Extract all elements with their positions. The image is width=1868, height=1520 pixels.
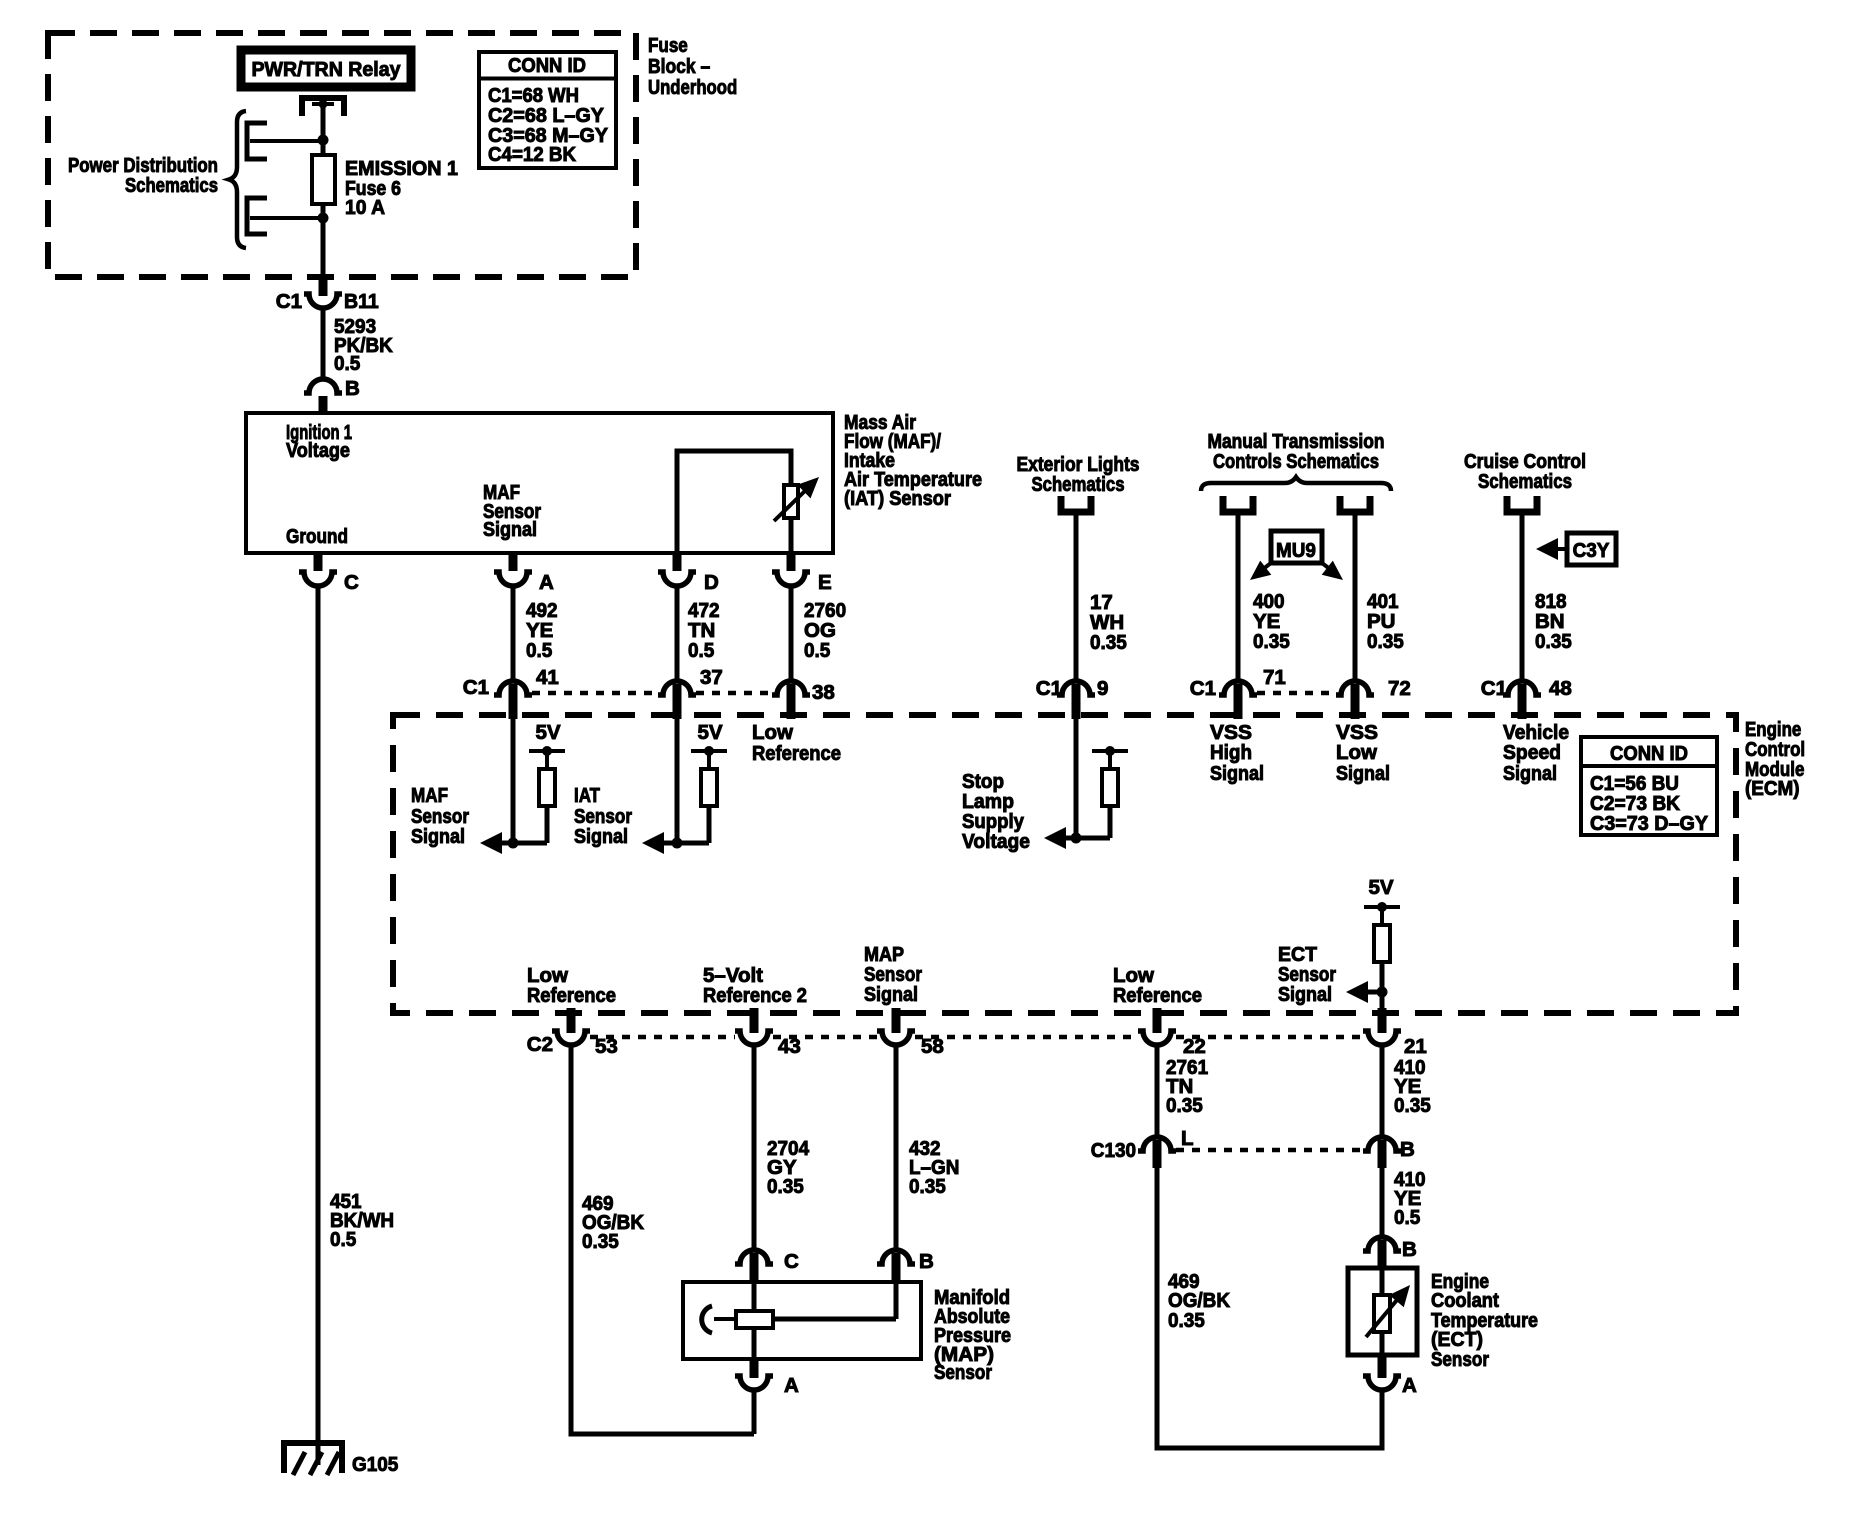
svg-text:5V: 5V (1368, 876, 1393, 899)
pin stub B (C130) (1378, 1140, 1387, 1168)
svg-text:0.5: 0.5 (526, 639, 552, 662)
svg-text:9: 9 (1097, 677, 1108, 700)
svg-text:71: 71 (1263, 666, 1286, 689)
label Manual Transmission Controls Schematics (1208, 430, 1385, 473)
pin stub A (ECT) (1378, 1355, 1387, 1378)
wire 469 OG/BK (low ref loop) (571, 1045, 754, 1434)
pin stub 37 (673, 684, 682, 719)
svg-text:0.35: 0.35 (582, 1230, 619, 1253)
wire 818 BN (1520, 512, 1525, 681)
svg-text:MAF: MAF (411, 784, 448, 807)
wire 2704 GY (752, 1045, 757, 1250)
svg-text:Signal: Signal (1503, 762, 1557, 785)
svg-text:C3Y: C3Y (1573, 539, 1610, 562)
svg-text:A: A (1402, 1374, 1417, 1397)
label Exterior Lights Schematics (1017, 453, 1140, 496)
svg-text:B: B (345, 377, 360, 400)
label Engine Coolant Temperature (ECT) Sensor (1431, 1270, 1538, 1371)
pin stub C1 B11 (319, 277, 328, 296)
pin stub B (MAP) (892, 1253, 901, 1284)
wire pin9 internal (1074, 719, 1079, 838)
label IAT Sensor Signal (ECM) (574, 784, 632, 848)
label Mass Air Flow (MAF)/ Intake Air Temperature (IAT) Sensor (844, 411, 982, 510)
lower branch bracket to power distribution (247, 198, 323, 234)
connector dashed link 22-21 (1176, 1035, 1363, 1040)
svg-text:MU9: MU9 (1276, 539, 1316, 562)
svg-text:C1: C1 (1036, 677, 1062, 700)
svg-text:0.5: 0.5 (334, 352, 360, 375)
label 2761 TN 0.35 (1166, 1056, 1208, 1117)
svg-text:38: 38 (812, 681, 835, 704)
label 818 BN 0.35 (1535, 590, 1572, 653)
label VSS Low Signal (1336, 721, 1390, 785)
pin stub A (MAP) (750, 1359, 759, 1378)
connector C1 pin 71 (1219, 681, 1257, 695)
label 410 YE 0.35 (upper) (1394, 1056, 1431, 1117)
svg-text:0.5: 0.5 (330, 1228, 356, 1251)
wire 2760 OG (789, 586, 794, 681)
connector C2 pin 53 (552, 1031, 590, 1045)
pin stub 9 (1072, 684, 1081, 719)
pin stub 22 (1153, 1008, 1162, 1033)
connector C130 pin B (1363, 1137, 1401, 1151)
connector pin D (658, 572, 696, 586)
pin stub B (319, 396, 328, 413)
connector ECT pin A (1363, 1376, 1401, 1390)
pin stub 21 (1378, 1008, 1387, 1033)
svg-text:(IAT) Sensor: (IAT) Sensor (844, 487, 951, 510)
label 492 YE 0.5 (526, 599, 558, 662)
label MAP Sensor Signal (ECM) (864, 943, 922, 1006)
svg-text:Reference: Reference (527, 984, 616, 1007)
fuse block - underhood dashed border (48, 33, 636, 277)
svg-text:IAT: IAT (574, 784, 600, 807)
connector dashed link 58-22 (915, 1035, 1138, 1040)
label 400 YE 0.35 (1253, 590, 1290, 653)
connector C1 pin B11 (304, 294, 342, 308)
connector C130 pin L (1138, 1137, 1176, 1151)
connector C2 pin 58 (877, 1031, 915, 1045)
svg-text:72: 72 (1388, 677, 1411, 700)
svg-text:Signal: Signal (1336, 762, 1390, 785)
wire 5293 PK/BK (321, 308, 326, 380)
CONN ID table (ECM) (1581, 737, 1717, 835)
svg-text:(ECM): (ECM) (1745, 777, 1800, 800)
connector C1 pin 72 (1336, 681, 1374, 695)
relay terminal T-bar with junction dot (312, 100, 334, 109)
svg-text:0.35: 0.35 (1090, 631, 1127, 654)
label 5293 PK/BK 0.5 (334, 315, 393, 375)
off-page symbol VSS low (1340, 496, 1370, 512)
connector C1 pin 48 (1503, 681, 1541, 695)
wire 469 OG/BK (ECT low ref loop) (1157, 1168, 1382, 1448)
connector MAP pin A (735, 1376, 773, 1390)
svg-text:G105: G105 (352, 1453, 398, 1476)
MAP internal vertical wire (752, 1282, 757, 1359)
svg-text:0.5: 0.5 (804, 639, 830, 662)
label Low Reference (pin 22) (1113, 964, 1202, 1007)
connector C1 pin 41 (494, 681, 532, 695)
5V supply T-bar (ECT) (1364, 905, 1400, 909)
connector C1 pin 37 (658, 681, 696, 695)
engine control module dashed border (393, 715, 1736, 1013)
node junction ECT signal (1377, 987, 1388, 998)
curly brace power distribution (229, 111, 246, 248)
label 2760 OG 0.5 (804, 599, 846, 662)
label MAF Sensor Signal (component) (483, 481, 541, 541)
svg-text:0.5: 0.5 (688, 639, 714, 662)
connector C2 pin 22 (1138, 1031, 1176, 1045)
svg-text:5V: 5V (535, 721, 560, 744)
svg-text:Voltage: Voltage (962, 830, 1030, 853)
svg-text:Speed: Speed (1503, 741, 1561, 764)
ground wire 451 BK/WH (316, 586, 321, 1465)
label 17 WH 0.35 (1090, 591, 1127, 654)
upper branch bracket to power distribution (247, 123, 323, 159)
label Power Distribution Schematics (68, 154, 218, 197)
wire 2761 TN (1155, 1045, 1160, 1137)
svg-text:0.35: 0.35 (1166, 1094, 1203, 1117)
5V supply T-bar (IAT) (691, 749, 727, 753)
label Manifold Absolute Pressure (MAP) Sensor (934, 1286, 1011, 1384)
label 472 TN 0.5 (688, 599, 720, 662)
label 2704 GY 0.35 (767, 1137, 810, 1198)
svg-text:0.35: 0.35 (1253, 630, 1290, 653)
ECT sensor signal arrow (1346, 981, 1382, 1003)
pin stub E (787, 553, 796, 571)
off-page symbol cruise control (1507, 496, 1537, 512)
svg-text:B: B (1400, 1138, 1415, 1161)
pin stub 72 (1351, 684, 1360, 719)
label PWR/TRN Relay box (241, 50, 411, 87)
svg-text:Signal: Signal (574, 825, 628, 848)
label 401 PU 0.35 (1367, 590, 1404, 653)
svg-text:C: C (344, 571, 359, 594)
MAF sensor signal arrow (480, 832, 547, 854)
node junction lower branch (318, 213, 329, 224)
connector C1 pin 9 (1057, 681, 1095, 695)
svg-text:A: A (539, 571, 554, 594)
splice MU9 flag box (1271, 531, 1322, 563)
pin stub 38 (787, 684, 796, 719)
svg-text:Schematics: Schematics (125, 174, 218, 197)
connector dashed link 37-38 (696, 691, 772, 696)
ECT thermistor (variable resistor) (1366, 1279, 1417, 1337)
svg-text:C1: C1 (1481, 677, 1507, 700)
pull-up resistor (stop lamp) (1102, 751, 1118, 838)
IAT internal wire loop (677, 451, 791, 553)
pin stub 58 (892, 1008, 901, 1033)
off-page symbol VSS high (1223, 496, 1253, 512)
label VSS High Signal (1210, 721, 1264, 785)
svg-text:C4=12 BK: C4=12 BK (488, 143, 576, 166)
svg-text:0.35: 0.35 (909, 1175, 946, 1198)
pin stub B (ECT) (1378, 1240, 1387, 1270)
svg-text:5V: 5V (697, 721, 722, 744)
wire 492 YE (511, 586, 516, 681)
pull-up resistor (MAF) (539, 751, 555, 843)
node junction MAF signal (508, 838, 519, 849)
label Low Reference (pin 38) (752, 721, 841, 765)
wire 410 YE 0.35 (1380, 1045, 1385, 1137)
relay terminal bracket (302, 98, 344, 116)
label Ignition 1 Voltage (286, 421, 352, 462)
svg-text:Schematics: Schematics (1032, 473, 1125, 496)
pin stub D (673, 553, 682, 571)
svg-text:Voltage: Voltage (286, 439, 350, 462)
svg-text:0.35: 0.35 (767, 1175, 804, 1198)
wire 432 L-GN (894, 1045, 899, 1250)
svg-text:Signal: Signal (411, 825, 465, 848)
svg-text:Block –: Block – (648, 55, 710, 78)
svg-text:Signal: Signal (483, 518, 537, 541)
svg-text:10 A: 10 A (345, 196, 385, 219)
MAF/IAT sensor box (246, 413, 833, 553)
svg-text:Schematics: Schematics (1478, 470, 1572, 493)
connector dashed link 53-43 (590, 1035, 735, 1040)
svg-text:A: A (784, 1374, 799, 1397)
svg-text:Sensor: Sensor (934, 1361, 992, 1384)
connector MAP pin B (877, 1250, 915, 1264)
svg-text:Signal: Signal (864, 983, 918, 1006)
label MAF Sensor Signal (ECM) (411, 784, 469, 848)
svg-text:Signal: Signal (1278, 983, 1332, 1006)
label Engine Control Module (ECM) (1745, 718, 1805, 800)
MAP internal signal wire (773, 1282, 896, 1319)
svg-text:Low: Low (1336, 741, 1377, 764)
svg-text:High: High (1210, 741, 1252, 764)
svg-text:L: L (1181, 1127, 1194, 1150)
pin stub 53 (567, 1008, 576, 1033)
svg-text:Reference 2: Reference 2 (703, 984, 807, 1007)
svg-text:0.5: 0.5 (1394, 1206, 1420, 1229)
stop lamp supply arrow (1044, 827, 1110, 849)
connector C2 pin 43 (735, 1031, 773, 1045)
wire 401 PU (1353, 512, 1358, 681)
svg-text:Reference: Reference (752, 742, 841, 765)
svg-text:48: 48 (1549, 677, 1572, 700)
connector flag C3Y (1536, 533, 1616, 565)
ECT internal wire (1380, 1268, 1385, 1355)
connector C2 pin 21 (1363, 1031, 1401, 1045)
connector dashed link 43-58 (773, 1035, 877, 1040)
svg-text:B11: B11 (344, 290, 379, 313)
svg-text:Sensor: Sensor (1431, 1348, 1489, 1371)
pin stub 71 (1234, 684, 1243, 719)
pin stub 48 (1518, 684, 1527, 719)
label 451 BK/WH 0.5 (330, 1190, 394, 1251)
IAT thermistor (variable resistor) (774, 470, 826, 521)
ECT sensor box (1348, 1268, 1417, 1355)
svg-text:B: B (1402, 1238, 1417, 1261)
wire MAP pin A to low reference (752, 1390, 757, 1434)
MU9 arrow right (1322, 561, 1349, 587)
IAT sensor signal arrow (642, 832, 709, 854)
svg-text:21: 21 (1404, 1035, 1427, 1058)
svg-text:E: E (818, 571, 832, 594)
connector pin B at ignition module (304, 379, 342, 393)
pin stub A (509, 553, 518, 571)
wire 410 YE 0.5 (1380, 1168, 1385, 1237)
node junction upper branch (318, 135, 329, 146)
svg-text:0.35: 0.35 (1535, 630, 1572, 653)
MAP sense element (736, 1311, 773, 1328)
label Vehicle Speed Signal (1503, 721, 1569, 785)
svg-text:Controls Schematics: Controls Schematics (1213, 450, 1379, 473)
svg-text:0.35: 0.35 (1168, 1309, 1205, 1332)
svg-text:B: B (919, 1250, 934, 1273)
label ECT Sensor Signal (ECM) (1278, 943, 1336, 1006)
svg-text:Underhood: Underhood (648, 76, 737, 99)
svg-text:C1: C1 (1190, 677, 1216, 700)
svg-text:C2: C2 (527, 1033, 553, 1056)
svg-text:C1: C1 (276, 290, 302, 313)
wire 472 TN (675, 586, 680, 681)
connector pin E (772, 572, 810, 586)
MAP sensor box (683, 1282, 921, 1359)
pull-up resistor (ECT) (1374, 907, 1390, 1013)
label 5-Volt Reference 2 (703, 964, 807, 1007)
svg-text:C130: C130 (1091, 1139, 1136, 1162)
svg-text:Ground: Ground (286, 525, 348, 548)
MAP pressure port symbol (702, 1306, 736, 1333)
node junction IAT signal (672, 838, 683, 849)
5V supply T-bar (stop lamp) (1092, 749, 1128, 753)
label Fuse Block - Underhood (648, 34, 737, 99)
connector pin A (494, 572, 532, 586)
pin stub C (MAP) (750, 1253, 759, 1284)
node junction stop lamp (1071, 833, 1082, 844)
pin stub C (314, 553, 323, 571)
off-page symbol exterior lights (1061, 496, 1091, 512)
fuse F6 EMISSION 1 (312, 155, 335, 204)
connector dashed link L-B (1176, 1148, 1363, 1153)
svg-text:41: 41 (536, 666, 559, 689)
svg-text:CONN ID: CONN ID (1610, 742, 1688, 765)
label EMISSION 1 Fuse 6 10 A (345, 157, 458, 219)
svg-text:0.35: 0.35 (1367, 630, 1404, 653)
svg-text:37: 37 (700, 666, 723, 689)
svg-text:PWR/TRN Relay: PWR/TRN Relay (252, 58, 402, 81)
svg-text:C: C (784, 1250, 799, 1273)
label 410 YE 0.5 (1394, 1168, 1426, 1229)
connector pin C (299, 572, 337, 586)
label 432 L-GN 0.35 (909, 1137, 959, 1198)
wire pin41 internal (511, 719, 516, 843)
wire from relay through fuse to border (321, 104, 326, 277)
svg-text:Fuse: Fuse (648, 34, 688, 57)
connector dashed link 41-37 (532, 691, 658, 696)
pin stub 41 (509, 684, 518, 719)
svg-text:Reference: Reference (1113, 984, 1202, 1007)
svg-text:C3=73 D–GY: C3=73 D–GY (1590, 812, 1708, 835)
label Stop Lamp Supply Voltage (962, 770, 1030, 853)
svg-text:D: D (704, 571, 719, 594)
label Cruise Control Schematics (1464, 450, 1586, 493)
svg-text:0.35: 0.35 (1394, 1094, 1431, 1117)
pin stub 43 (750, 1008, 759, 1033)
MU9 arrow left (1244, 561, 1271, 587)
connector dashed link 71-72 (1257, 691, 1336, 696)
label Low Reference (pin 53) (527, 964, 616, 1007)
svg-text:CONN ID: CONN ID (508, 54, 586, 77)
wire 17 WH (1074, 512, 1079, 681)
label 469 OG/BK 0.35 (left) (582, 1192, 644, 1253)
svg-text:C1: C1 (463, 676, 489, 699)
pin stub L (1153, 1140, 1162, 1168)
svg-text:Low: Low (752, 721, 793, 744)
label 469 OG/BK 0.35 (right) (1168, 1270, 1230, 1332)
ground G105 symbol (284, 1443, 342, 1475)
wire 400 YE (1236, 512, 1241, 681)
connector MAP pin C (735, 1250, 773, 1264)
connector ECT pin B (1363, 1237, 1401, 1251)
pull-up resistor (IAT) (701, 751, 717, 843)
wire pin37 internal (675, 719, 680, 843)
horizontal curly brace (1201, 477, 1391, 491)
5V supply T-bar (MAF) (529, 749, 565, 753)
CONN ID table (fuse block) (479, 52, 616, 168)
svg-text:Signal: Signal (1210, 762, 1264, 785)
connector C1 pin 38 (772, 681, 810, 695)
